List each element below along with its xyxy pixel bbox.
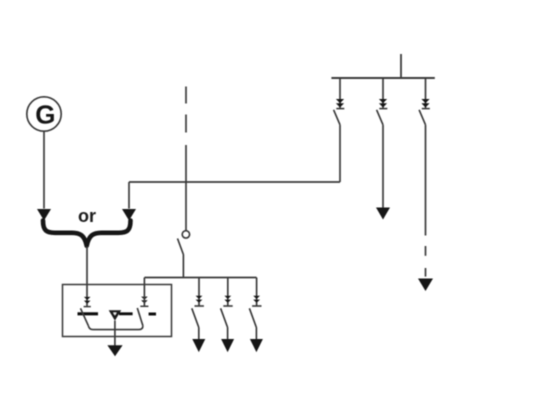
tie wire horizontal [129,181,340,183]
contact bar lv feeder 2 [223,305,232,307]
contact bar feeder 1 [336,108,344,110]
switch blade box left [81,308,89,326]
wire lv feeder 3 down [255,328,257,340]
switch blade feeder 1 [334,110,340,125]
switch blade feeder 2 [377,110,383,125]
drawout chevrons feeder 3 [421,99,429,108]
arrow lv feeder 2 [221,339,234,352]
thick bar box left [78,312,99,315]
drawout chevrons feeder 2 [379,99,387,108]
thick bar box middle [119,312,133,315]
wire feeder 3 down solid [425,125,427,236]
wire diode down [114,321,116,346]
switch blade feeder 3 [419,110,425,125]
drawout chevrons feeder 1 [336,99,344,108]
chevrons box left [84,297,91,304]
svg-text:G: G [35,100,55,130]
switch blade lv feeder 1 [192,308,199,327]
chevrons lv feeder 1 [196,296,203,303]
arrow feeder 3 [418,279,433,292]
open contact circle [182,231,189,238]
switch blade box right [137,308,143,326]
svg-text:or: or [78,206,96,226]
wire lv feeder 2 down [227,328,229,340]
contact bar lv feeder 3 [252,305,261,307]
wire box right riser [143,278,145,307]
arrow generator [37,209,51,221]
tie wire down left [128,182,130,209]
contact bar feeder 2 [379,108,387,110]
switch blade lv feeder 3 [249,308,256,327]
generator wire down [43,131,45,208]
wire feeder 2 down [382,125,384,208]
arrow feeder 2 [376,208,390,220]
switch blade middle [178,239,184,255]
lv feeder 1 wire [198,278,200,307]
wire box bottom [88,326,142,330]
lv feeder 3 wire [256,278,258,307]
dashed riser middle [185,87,187,104]
solid riser middle [185,145,187,231]
brace collector [43,221,131,246]
diode triangle [109,310,122,320]
contact bar feeder 3 [422,108,430,110]
busbar bottom middle [144,277,256,279]
generator G circle [27,97,61,131]
arrow box bottom [107,345,122,356]
chevrons lv feeder 3 [253,296,260,303]
feeder drop 2 wire [382,78,384,109]
arrow lv feeder 3 [250,339,263,352]
feeder drop 3 wire [425,78,427,109]
switch blade lv feeder 2 [221,308,228,327]
chevrons box right [141,297,148,304]
feeder drop 1 wire [339,78,341,109]
diode triangle center [113,313,116,316]
wire feeder 3 dashed continuation [425,246,427,256]
thick dash box right [149,313,156,316]
wire lv feeder 1 down [198,328,200,340]
busbar top right [331,77,434,79]
wire brace tail [86,247,88,307]
wire feeder 1 down [339,125,341,182]
arrow tie left [122,209,136,221]
lv feeder 2 wire [227,278,229,307]
incoming supply stub [400,54,402,78]
arrow lv feeder 1 [192,339,205,352]
contact bar box right [140,305,148,307]
wire blade to bus [182,255,184,278]
battery charger box [63,285,172,337]
contact bar box left [84,306,91,308]
contact bar lv feeder 1 [195,305,204,307]
chevrons lv feeder 2 [224,296,231,303]
